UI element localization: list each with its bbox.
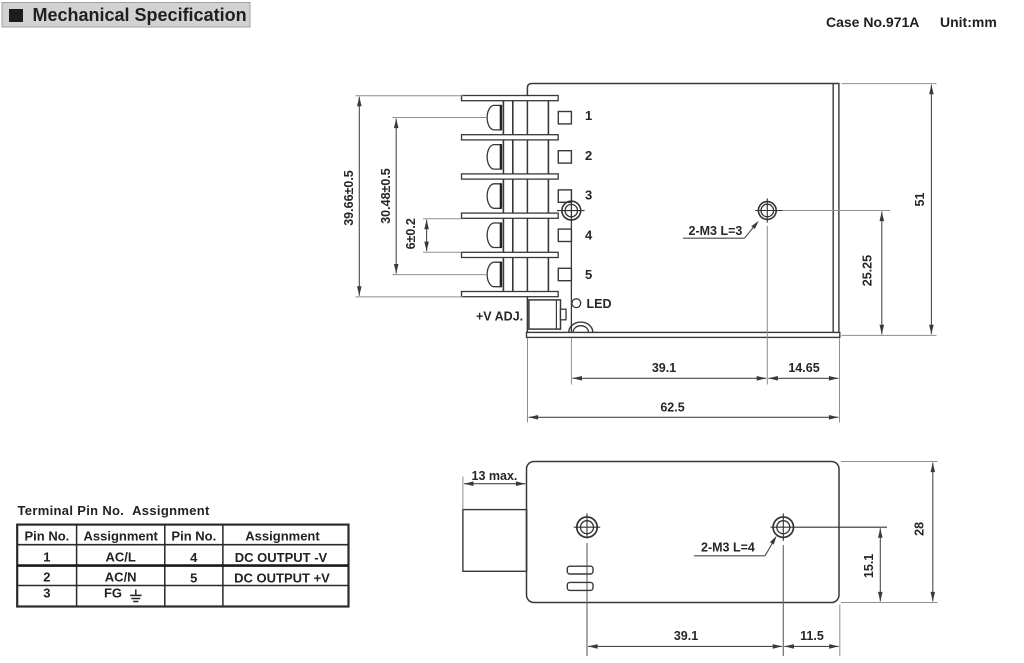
pin marker square 4 — [558, 229, 571, 241]
terminal block protrusion — [463, 510, 527, 572]
table outer border — [17, 525, 348, 607]
svg-text:DC OUTPUT +V: DC OUTPUT +V — [234, 570, 330, 585]
svg-text:AC/L: AC/L — [106, 549, 136, 564]
leader arrowhead top view — [751, 221, 759, 229]
case top edge with rounded corner — [527, 84, 839, 96]
section header bar — [2, 3, 250, 28]
svg-text:4: 4 — [585, 228, 593, 243]
svg-text:2-M3 L=3: 2-M3 L=3 — [689, 224, 743, 238]
dim line 6 — [426, 220, 428, 251]
terminal screw 2 — [487, 144, 501, 169]
mounting hole H1 side view — [574, 513, 600, 538]
mounting hole H2 top view — [755, 198, 782, 222]
terminal divider bar 3 — [462, 174, 559, 179]
terminal block body rails — [503, 101, 548, 292]
vent slot 2 — [567, 582, 593, 590]
svg-text:Unit:mm: Unit:mm — [940, 14, 997, 30]
svg-text:25.25: 25.25 — [861, 255, 875, 286]
ext lines right dims top view — [783, 84, 937, 336]
svg-text:4: 4 — [190, 550, 198, 565]
mounting hole H1 top view — [557, 201, 585, 220]
table column lines — [77, 525, 223, 607]
hole H1 centerline extension — [586, 543, 588, 656]
svg-text:39.1: 39.1 — [674, 629, 698, 643]
side case left edge restored — [526, 510, 528, 572]
svg-text:28: 28 — [913, 522, 927, 536]
potentiometer side tab — [561, 309, 567, 320]
dim line 39.1 top view — [573, 377, 767, 379]
terminal divider bar 4 — [462, 213, 559, 218]
svg-text:1: 1 — [43, 549, 50, 564]
terminal divider bar 6 — [462, 292, 559, 297]
dim line 15.1 — [879, 528, 881, 601]
svg-text:Terminal Pin No. Assignment: Terminal Pin No. Assignment — [18, 503, 211, 518]
FG earth ground symbol — [130, 589, 142, 601]
svg-text:Assignment: Assignment — [245, 529, 320, 544]
svg-text:Pin No.: Pin No. — [171, 529, 216, 544]
svg-text:39.1: 39.1 — [652, 361, 676, 375]
svg-text:Pin No.: Pin No. — [25, 529, 70, 544]
svg-text:2: 2 — [43, 570, 50, 585]
dim line 30.48 — [395, 119, 397, 274]
pin marker square 2 — [558, 151, 571, 163]
terminal divider bar 1 — [462, 96, 559, 101]
dim line 39.1 side view — [588, 645, 782, 647]
dim line 62.5 — [529, 416, 839, 418]
svg-text:51: 51 — [913, 193, 927, 207]
LED indicator circle — [572, 299, 581, 308]
dim line 11.5 — [784, 645, 838, 647]
potentiometer box — [529, 300, 561, 329]
ext lines bottom side view — [783, 545, 840, 656]
svg-text:15.1: 15.1 — [862, 554, 876, 578]
svg-text:62.5: 62.5 — [660, 400, 684, 414]
vent slot 1 — [567, 566, 593, 574]
ext line 13max — [462, 477, 464, 510]
bottom flange — [527, 332, 840, 337]
svg-text:2: 2 — [585, 148, 592, 163]
cable grommet arcs — [569, 322, 593, 332]
svg-text:14.65: 14.65 — [788, 361, 819, 375]
svg-text:3: 3 — [585, 188, 592, 203]
svg-text:FG: FG — [104, 586, 122, 601]
terminal screw 3 — [487, 184, 501, 209]
case left edge lower segment — [526, 96, 528, 333]
svg-text:Mechanical Specification: Mechanical Specification — [33, 5, 247, 25]
svg-text:DC OUTPUT -V: DC OUTPUT -V — [235, 550, 328, 565]
dim line 28 — [932, 463, 934, 602]
svg-text:39.66±0.5: 39.66±0.5 — [342, 170, 356, 226]
header bullet square — [9, 9, 23, 22]
terminal screw 5 — [487, 262, 501, 287]
dim line 51 — [930, 85, 932, 335]
svg-text:2-M3 L=4: 2-M3 L=4 — [701, 540, 755, 554]
svg-text:3: 3 — [43, 586, 50, 601]
ext lines left dims top view — [356, 96, 487, 297]
potentiometer inner line — [555, 300, 557, 329]
pin marker square 1 — [558, 112, 571, 124]
ext lines right side view — [841, 462, 938, 603]
svg-text:6±0.2: 6±0.2 — [404, 218, 418, 249]
terminal divider bar 5 — [462, 252, 559, 257]
side case outline — [527, 462, 840, 603]
svg-text:+V ADJ.: +V ADJ. — [476, 309, 523, 323]
table row lines — [17, 544, 348, 546]
svg-text:30.48±0.5: 30.48±0.5 — [379, 168, 393, 224]
svg-text:5: 5 — [190, 570, 197, 585]
dim line 25.25 — [881, 212, 883, 335]
svg-text:Case No.971A: Case No.971A — [826, 14, 919, 30]
svg-text:5: 5 — [585, 267, 592, 282]
dim line 14.65 — [768, 377, 838, 379]
leader arrowhead side view — [770, 536, 777, 545]
terminal screw 1 — [487, 105, 501, 130]
pin marker square 5 — [558, 268, 571, 280]
leader 2-M3 L=3 — [683, 224, 757, 239]
case right edge outer line — [838, 84, 840, 333]
cover seam line — [570, 189, 572, 332]
leader 2-M3 L=4 — [694, 540, 775, 556]
svg-text:AC/N: AC/N — [105, 570, 137, 585]
svg-text:11.5: 11.5 — [800, 629, 824, 643]
svg-text:1: 1 — [585, 108, 592, 123]
svg-text:13 max.: 13 max. — [472, 469, 518, 483]
dim line 13 max — [464, 483, 525, 485]
dim line 39.66 — [358, 97, 360, 296]
terminal divider bar 2 — [462, 135, 559, 140]
svg-text:Assignment: Assignment — [83, 529, 158, 544]
ext lines bottom dims top view — [528, 226, 840, 423]
case right edge inner line — [832, 84, 834, 333]
mounting hole H2 side view — [771, 513, 888, 540]
terminal screw 4 — [487, 223, 501, 248]
pin marker square 3 — [558, 190, 571, 202]
svg-text:LED: LED — [587, 297, 612, 311]
